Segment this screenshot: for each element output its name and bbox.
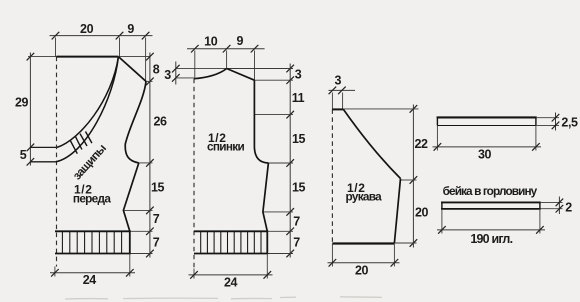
front armhole curve bbox=[125, 81, 146, 162]
svg-text:29: 29 bbox=[15, 96, 29, 110]
front yoke extension 162 bbox=[30, 161, 56, 163]
svg-text:24: 24 bbox=[224, 276, 238, 290]
sleeve underarm seam bbox=[394, 179, 400, 243]
front bottom dimension 24 bbox=[54, 267, 56, 277]
front extension: left top bbox=[55, 38, 57, 57]
sleeve top mini dim 3 bbox=[329, 89, 356, 91]
sleeve extensions to right dim bbox=[343, 108, 418, 110]
svg-text:10: 10 bbox=[204, 35, 218, 49]
svg-text:15: 15 bbox=[292, 132, 306, 146]
front yoke lower curve bbox=[56, 57, 118, 162]
back bottom dimension 24 bbox=[193, 269, 195, 279]
front yoke extension 147 bbox=[30, 146, 57, 148]
back side seam bbox=[263, 163, 269, 231]
bar2 rectangle bbox=[441, 201, 541, 203]
back extensions from top dim bbox=[194, 51, 196, 79]
back top dimension line 10+9 bbox=[187, 48, 265, 50]
front top dimension line 20+9 bbox=[50, 35, 153, 37]
front tuck tick 1 bbox=[70, 140, 77, 154]
svg-text:спинки: спинки bbox=[207, 140, 244, 154]
back hem band bbox=[194, 231, 267, 253]
svg-text:2,5: 2,5 bbox=[561, 116, 578, 130]
front extension: shoulder top bbox=[119, 38, 121, 57]
svg-text:20: 20 bbox=[80, 22, 94, 36]
svg-text:11: 11 bbox=[292, 91, 305, 105]
front right dimension line 8/26/15/7/7 bbox=[149, 53, 151, 258]
bar1 dim 2,5 bbox=[555, 113, 557, 131]
svg-text:7: 7 bbox=[153, 236, 160, 250]
front top edge bbox=[57, 56, 119, 58]
svg-text:7: 7 bbox=[293, 236, 300, 250]
front left dimension line 29/5 bbox=[29, 53, 31, 166]
svg-text:рукава: рукава bbox=[346, 190, 383, 204]
back right dimension line 3/11/15/15/7/7 bbox=[289, 64, 291, 258]
back extension lines to right dim bbox=[227, 68, 293, 70]
front tuck tick 4 bbox=[86, 132, 92, 144]
bar2 extensions right for 2 bbox=[540, 201, 563, 203]
front shoulder slope bbox=[118, 57, 146, 82]
svg-text:5: 5 bbox=[20, 148, 27, 162]
sleeve bottom edge bbox=[332, 242, 394, 244]
svg-text:3: 3 bbox=[335, 74, 342, 88]
front mini dim 3 (neck drop) bbox=[175, 62, 177, 85]
svg-text:7: 7 bbox=[293, 215, 300, 229]
sleeve top edge bbox=[332, 108, 343, 110]
svg-text:3: 3 bbox=[164, 68, 171, 82]
front extension: slope end from 9 bbox=[145, 38, 147, 82]
back hem band ribbing hatches bbox=[201, 231, 261, 253]
front top edge extension to dims bbox=[28, 56, 57, 58]
svg-text:20: 20 bbox=[415, 206, 429, 220]
front tuck tick 2 bbox=[75, 136, 82, 149]
svg-text:2: 2 bbox=[565, 200, 572, 214]
front fold line (dashed) bbox=[56, 57, 58, 267]
svg-text:3: 3 bbox=[295, 68, 302, 82]
sleeve cap diagonal bbox=[343, 109, 400, 178]
bar1 rectangle bbox=[437, 116, 537, 118]
front side seam bbox=[123, 163, 138, 231]
svg-text:9: 9 bbox=[237, 34, 244, 48]
svg-text:15: 15 bbox=[292, 181, 306, 195]
front yoke upper curve bbox=[57, 57, 118, 148]
svg-text:30: 30 bbox=[478, 148, 492, 162]
svg-text:9: 9 bbox=[127, 22, 134, 36]
svg-text:20: 20 bbox=[355, 263, 369, 277]
svg-text:15: 15 bbox=[151, 181, 165, 195]
sleeve right dimension line 22/20 bbox=[412, 105, 414, 248]
svg-text:бейка в горловину: бейка в горловину bbox=[443, 184, 538, 198]
svg-text:22: 22 bbox=[414, 137, 428, 151]
bar2 dim 190 игл. bbox=[441, 209, 443, 234]
svg-text:190 игл.: 190 игл. bbox=[470, 232, 512, 246]
back neck curve bbox=[194, 69, 227, 79]
svg-text:24: 24 bbox=[83, 273, 97, 287]
front hem band ribbing hatches bbox=[62, 231, 121, 253]
back fold line (dashed) bbox=[193, 79, 195, 269]
bar2 dim 2 bbox=[558, 197, 560, 215]
svg-text:переда: переда bbox=[73, 192, 111, 206]
front tuck tick 3 bbox=[80, 134, 87, 146]
front hem band bbox=[55, 231, 130, 253]
svg-text:7: 7 bbox=[153, 212, 160, 226]
svg-text:26: 26 bbox=[153, 115, 167, 129]
sleeve bottom dimension 20 bbox=[331, 244, 333, 267]
front extension lines to right dim bbox=[146, 80, 153, 82]
scan artifact: faint streak bottom bbox=[65, 297, 382, 299]
bar1 dim 30 bbox=[436, 126, 438, 151]
back armhole edge bbox=[254, 80, 268, 163]
svg-text:8: 8 bbox=[153, 63, 160, 77]
sleeve fold line (dashed) bbox=[331, 109, 333, 243]
back shoulder slope bbox=[227, 69, 255, 81]
bar1 extensions right for 2,5 bbox=[536, 117, 559, 119]
